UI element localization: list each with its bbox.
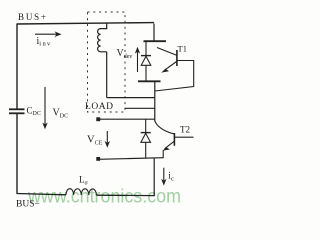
diode D2 (antiparallel of T2): [145, 119, 147, 132]
wire T2 gate: [174, 136, 193, 138]
arrow i_c: [163, 168, 165, 181]
svg-text:LOAD: LOAD: [85, 102, 113, 112]
T1 emitter bar: [138, 80, 161, 82]
arrow V_DC: [44, 87, 46, 125]
svg-text:T2: T2: [180, 125, 190, 135]
wire T1 gate return: [155, 61, 194, 92]
capacitor C_DC: [9, 108, 25, 110]
arrow V_ce: [106, 131, 108, 144]
transistor T2: [155, 121, 174, 134]
wire LOAD box to midpoint: [125, 107, 155, 109]
wire bottom rail right: [96, 194, 154, 196]
wire T2 emitter stub: [162, 151, 164, 159]
wire left rail lower: [16, 114, 18, 194]
arrow i_inv: [35, 33, 58, 35]
LOAD dashed box: [88, 12, 126, 112]
wire inductor to midpoint: [107, 97, 155, 99]
T1 collector bar: [144, 40, 167, 42]
wire V_ce top with terminal dot: [96, 117, 100, 121]
transistor T1: [157, 48, 177, 56]
wire top rail BUS+: [17, 23, 155, 24]
diode D1 (antiparallel of T1): [145, 41, 147, 55]
wire T1 collector drop: [153, 24, 155, 41]
wire midpoint vertical: [154, 81, 156, 121]
svg-text:BUS−: BUS−: [16, 200, 40, 210]
wire bottom rail left: [17, 194, 67, 195]
svg-text:www.cntronics.com: www.cntronics.com: [27, 187, 181, 208]
wire left rail: [16, 24, 18, 109]
wire V_ce bottom with terminal dot: [96, 157, 100, 161]
inductor LOAD coil: [98, 23, 107, 98]
inductor L_sigma: [66, 189, 96, 196]
svg-text:BUS+: BUS+: [18, 12, 46, 22]
svg-text:T1: T1: [178, 44, 187, 54]
wire T2 emitter to BUS-: [153, 159, 155, 196]
arrow V_dev: [137, 50, 139, 72]
